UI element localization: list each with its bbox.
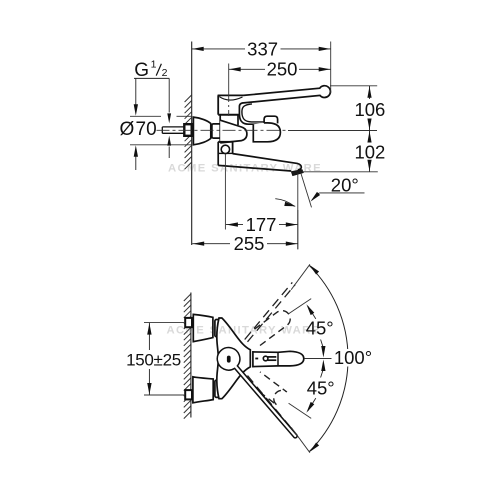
- pipe lower arrow: [167, 136, 171, 146]
- label 100 degrees: [333, 349, 375, 367]
- spout aerator detail (plan): [263, 356, 268, 361]
- dimension 255: [192, 243, 230, 245]
- body cone (funnel): [220, 120, 247, 143]
- extension line lower inlet axis: [144, 394, 185, 396]
- vertical centerline (body axis): [228, 64, 230, 95]
- diameter-70 upper arrow: [135, 78, 137, 111]
- lower inlet escutcheon (plan): [193, 377, 213, 403]
- wall (lower view) with hatching: [190, 293, 192, 418]
- diameter 70 lower arrow: [135, 151, 137, 171]
- svg-text:2: 2: [162, 67, 168, 79]
- lever slot detail: [227, 356, 231, 363]
- dimension 150 plus-minus 25: [148, 323, 150, 350]
- dashed spout rotated up 45: [250, 311, 290, 346]
- swivel spout housing (side view): [253, 123, 280, 142]
- arc end extension upper: [291, 264, 310, 289]
- svg-text:150±25: 150±25: [126, 351, 181, 370]
- svg-text:337: 337: [247, 38, 278, 59]
- dimension 106: [369, 86, 371, 99]
- svg-text:1: 1: [151, 59, 157, 71]
- upper union nut (plan): [215, 320, 222, 337]
- watermark lower: [166, 326, 320, 337]
- lever hub inner contour: [242, 104, 264, 122]
- mixer body (plan view): [217, 318, 251, 399]
- svg-text:Ø: Ø: [120, 119, 135, 140]
- extension line upper inlet axis: [144, 322, 185, 324]
- G1/2 leader to pipe: [168, 78, 170, 112]
- watermark upper: [168, 163, 322, 174]
- dimension 250: [229, 68, 265, 70]
- spout (plan view): [253, 351, 304, 366]
- svg-text:250: 250: [267, 59, 298, 80]
- wall fitting socket: [184, 124, 191, 136]
- swivel range arc 100 degrees: [309, 265, 348, 451]
- extension line bottom of escutcheon: [130, 144, 191, 146]
- svg-text:106: 106: [354, 99, 385, 120]
- spout tip vertical reference: [297, 174, 299, 250]
- extension line from body axis down: [224, 154, 226, 230]
- cartridge cap: [218, 94, 244, 96]
- base box with screw detail: [218, 141, 232, 143]
- extension line spout outlet: [302, 171, 378, 173]
- lower union nut (plan): [215, 380, 222, 397]
- 45 extension line lower: [289, 403, 312, 418]
- svg-text:102: 102: [354, 141, 385, 162]
- 45 extension line upper: [289, 299, 312, 314]
- spout (side view): [233, 154, 302, 170]
- svg-text:70: 70: [136, 119, 157, 140]
- cartridge cap circle with lever (plan keyhole): [217, 348, 297, 438]
- svg-text:100°: 100°: [334, 347, 372, 368]
- extension line right of knob (337/250): [330, 42, 332, 94]
- dimension 337: [192, 48, 245, 50]
- horizontal centerline (mounting axis): [157, 129, 289, 131]
- extension line spout tip down: [297, 210, 299, 249]
- dashed swing limit double line upper: [245, 282, 293, 339]
- spout outlet aerator: [291, 170, 303, 176]
- extension line lever top: [330, 85, 377, 87]
- 20 degree arc with arrow: [275, 199, 294, 207]
- mixer body column: [219, 115, 221, 143]
- supply pipe stub in wall: [162, 126, 184, 128]
- escutcheon cone (side view): [193, 117, 210, 145]
- svg-text:177: 177: [246, 214, 277, 235]
- svg-text:255: 255: [234, 233, 265, 254]
- 20 degree slanted line: [301, 173, 312, 207]
- upper inlet escutcheon (plan): [193, 314, 213, 341]
- outlet cap nut on housing: [264, 116, 278, 124]
- spout centerline extension: [304, 358, 331, 360]
- upper inlet nut: [185, 318, 192, 327]
- dashed swing limit double line lower: [245, 378, 291, 433]
- extension line top of escutcheon: [130, 115, 161, 117]
- dimension 102: [369, 131, 371, 142]
- lever handle (long medical lever, side view): [239, 86, 330, 124]
- wall (upper view) with hatching: [191, 42, 193, 246]
- dashed spout rotated down 45: [250, 372, 287, 405]
- arc end extension lower: [291, 427, 310, 452]
- svg-text:45°: 45°: [307, 378, 335, 399]
- lower inlet nut: [185, 390, 192, 399]
- dimension 177: [226, 224, 243, 226]
- union locknut: [212, 124, 221, 138]
